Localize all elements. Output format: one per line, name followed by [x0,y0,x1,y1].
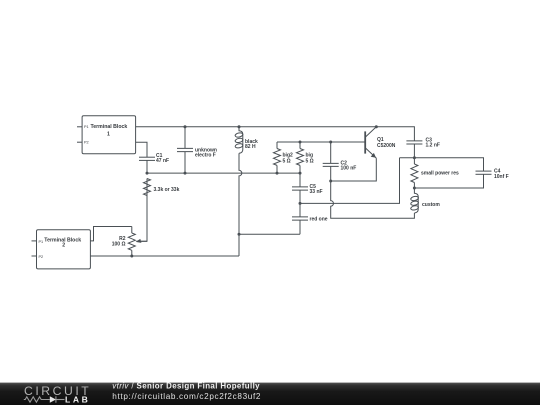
junction base wire / C2 top [329,141,332,144]
svg-text:Terminal Block: Terminal Block [91,124,128,130]
svg-text:100 nF: 100 nF [341,166,357,172]
resistor big [297,142,304,173]
resistor big2 [274,142,281,173]
junction C3 bottom / small power res top / C4 wire [413,156,416,159]
potentiometer R2 [128,227,147,257]
svg-text:P2: P2 [39,255,44,259]
wire black bottom with hop over mid rail [239,153,242,256]
svg-text:5 Ω: 5 Ω [283,158,291,164]
svg-text:http://circuitlab.com/c2pc2f2c: http://circuitlab.com/c2pc2f2c83uf2 [112,392,261,401]
svg-text:P1: P1 [84,125,89,129]
capacitor C1 [139,157,155,160]
svg-text:red one: red one [310,217,328,223]
svg-text:P2: P2 [84,141,89,145]
schematic labels [39,124,509,259]
capacitor red one [292,203,308,234]
junction red one bottom wire / black vertical [238,233,241,236]
junction mid rail / electro cap bottom [184,172,187,175]
svg-text:P1: P1 [39,240,44,244]
svg-text:small power res: small power res [421,171,459,177]
svg-text:2: 2 [62,243,65,249]
svg-text:electro F: electro F [195,153,216,159]
junction C5 bottom / red one top [299,202,302,205]
svg-text:1.2 nF: 1.2 nF [426,142,440,148]
svg-text:LAB: LAB [65,394,90,404]
capacitor C2 [323,142,339,181]
wire C1 bottom [146,160,148,173]
svg-text:33 nF: 33 nF [310,189,323,195]
wire C2 bottom with hop to custom bottom [331,181,415,218]
wire mid rail [147,172,300,174]
wire red one bottom to black vertical [239,233,300,235]
terminal block TB2 [32,230,91,269]
capacitor C5 [292,173,308,203]
wire base rail [277,141,365,143]
svg-text:100 Ω: 100 Ω [112,242,126,248]
junction mid rail / C1 / 3.3k resistor [146,172,149,175]
junction small power res bottom / custom top / C4 wire [413,187,416,190]
svg-text:3.3k or 33k: 3.3k or 33k [154,187,180,193]
resistor R3.3k [144,179,151,196]
svg-text:vtriv / Senior Design Final Ho: vtriv / Senior Design Final Hopefully [112,382,260,391]
wire TB2 P1 to R2 top [90,227,131,241]
capacitor electro [177,127,193,173]
capacitor C4 [414,171,491,188]
capacitor C3 [406,141,422,158]
svg-text:C5200N: C5200N [377,143,396,149]
junction mid rail / big2 bottom [276,172,279,175]
wire emitter to C2 [331,158,377,181]
svg-text:10nf F: 10nf F [494,174,509,180]
logo resistor+diode [24,396,65,402]
inductor black [235,127,243,154]
junction top rail / electro cap [184,125,187,128]
wire TB1 P2 to C1 [136,142,147,157]
wire 3.3k bottom to wiper [137,196,148,242]
svg-text:82 H: 82 H [245,144,256,150]
junction top rail / black inductor [238,125,241,128]
inductor custom [410,188,418,213]
wire y158 rail to C4 [400,158,484,171]
terminal block TB1 [77,116,136,154]
svg-text:1: 1 [107,131,110,137]
wire top rail from TB1 P1 to C3 [136,127,415,141]
svg-text:5 Ω: 5 Ω [306,158,314,164]
transistor Q1 [365,127,376,158]
wire y158 down to C5 junction wire [300,158,400,204]
svg-text:custom: custom [422,202,440,208]
footer bar [0,383,540,405]
wire bottom rail [90,255,239,257]
junction mid rail / big bottom / C5 top [299,172,302,175]
junction base wire / big top [299,141,302,144]
resistor small power res [411,158,418,188]
junction bottom rail / R2 bottom [130,255,133,258]
junction top rail / Q1 collector [375,125,378,128]
junction emitter wire / C2 bottom [329,180,332,183]
svg-text:47 nF: 47 nF [156,158,169,164]
